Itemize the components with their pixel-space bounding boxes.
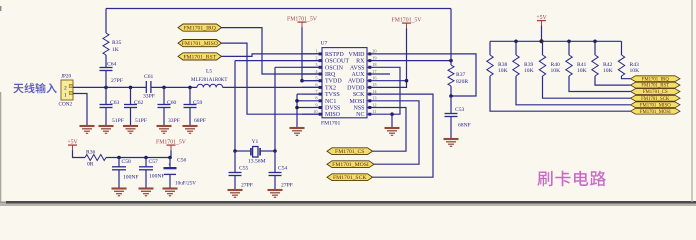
capacitor C64 xyxy=(100,67,113,69)
capacitor C61 xyxy=(145,81,147,93)
svg-text:CON2: CON2 xyxy=(59,102,73,108)
svg-text:68PF: 68PF xyxy=(194,118,206,124)
svg-text:20: 20 xyxy=(372,49,376,54)
svg-text:10uF/25V: 10uF/25V xyxy=(175,181,196,187)
wire 5V to AVDD/DVDD xyxy=(390,28,407,87)
svg-text:AVDD: AVDD xyxy=(348,79,365,85)
svg-text:33PF: 33PF xyxy=(168,118,180,124)
wire RX xyxy=(390,60,451,62)
svg-text:0R: 0R xyxy=(87,162,94,168)
capacitor C53 xyxy=(450,96,452,114)
svg-text:FM1701_CS: FM1701_CS xyxy=(335,149,364,155)
capacitor C63 xyxy=(105,87,107,104)
svg-text:18: 18 xyxy=(372,62,376,67)
svg-text:2: 2 xyxy=(64,86,67,92)
svg-text:FM1701_MISO: FM1701_MISO xyxy=(182,41,218,47)
resistor R43 xyxy=(618,55,624,76)
svg-text:1: 1 xyxy=(64,93,67,99)
svg-text:51PF: 51PF xyxy=(135,118,147,124)
svg-text:C58: C58 xyxy=(122,159,132,165)
IC U7 FM1701 xyxy=(322,48,367,118)
wire +5V bus xyxy=(490,40,622,42)
port FM1701_CS bottom xyxy=(327,148,373,155)
wire MOSI xyxy=(374,101,419,164)
svg-text:C60: C60 xyxy=(167,100,177,106)
svg-text:C53: C53 xyxy=(455,107,465,113)
svg-text:NC: NC xyxy=(356,112,364,118)
connector JP20 xyxy=(61,80,73,100)
wire antenna main net xyxy=(73,86,146,88)
svg-text:11: 11 xyxy=(372,109,376,114)
capacitor C60 xyxy=(163,87,165,104)
port FM1701_MOSI right xyxy=(631,108,681,114)
node C58 junction xyxy=(117,156,121,160)
svg-text:1K: 1K xyxy=(112,47,119,53)
port FM1701_RST right xyxy=(631,82,681,88)
window bottom border xyxy=(6,201,696,204)
svg-text:9: 9 xyxy=(315,102,317,107)
svg-text:C61: C61 xyxy=(144,74,154,80)
svg-text:MISO: MISO xyxy=(325,112,341,118)
wire 5V rail xyxy=(106,157,170,159)
resistor R37 xyxy=(448,65,454,86)
svg-text:FM1701_MOSI: FM1701_MOSI xyxy=(640,110,671,115)
svg-text:L5: L5 xyxy=(206,69,212,75)
resistor R38 xyxy=(487,55,493,76)
svg-text:VMID: VMID xyxy=(349,52,366,58)
port FM1701_IRQ left xyxy=(178,24,222,31)
svg-text:AVSS: AVSS xyxy=(350,65,365,71)
svg-text:RX: RX xyxy=(356,59,365,65)
ground under C56 xyxy=(163,189,178,196)
svg-text:FM1701_RST: FM1701_RST xyxy=(183,54,216,60)
svg-text:100NF: 100NF xyxy=(123,175,139,181)
port FM1701_RST left xyxy=(178,53,222,60)
capacitor C58 xyxy=(118,158,120,167)
svg-text:820R: 820R xyxy=(456,79,468,85)
svg-text:C62: C62 xyxy=(134,100,144,106)
node junction C60 xyxy=(162,86,166,90)
svg-text:C56: C56 xyxy=(177,158,187,164)
svg-text:2: 2 xyxy=(315,55,317,60)
capacitor C62 xyxy=(130,87,132,104)
ground under C63 xyxy=(99,126,114,133)
svg-text:C59: C59 xyxy=(193,100,203,106)
wire TVSS/NC1/DVSS bracket xyxy=(297,93,302,95)
resistor R42 xyxy=(592,55,598,76)
svg-text:OSCOUT: OSCOUT xyxy=(325,59,349,65)
svg-text:TVDD: TVDD xyxy=(325,79,342,85)
node bus R40 +5V xyxy=(540,39,544,43)
wire OSCIN to crystal xyxy=(275,66,322,68)
svg-text:DVSS: DVSS xyxy=(325,106,340,112)
wire C64 to antenna net xyxy=(105,71,107,88)
wire MISO to pin10 xyxy=(222,43,323,114)
node crystal left xyxy=(233,149,237,153)
ground under C60 xyxy=(157,126,172,133)
svg-text:OSCIN: OSCIN xyxy=(325,65,344,71)
svg-text:SCK: SCK xyxy=(353,92,365,98)
resistor R35 xyxy=(103,33,109,55)
svg-text:Y1: Y1 xyxy=(252,139,259,145)
port FM1701_MOSI bottom xyxy=(327,161,374,168)
svg-text:NSS: NSS xyxy=(353,106,364,112)
wire VMID loop xyxy=(390,54,476,96)
node bracket DVSS xyxy=(295,106,299,110)
port FM1701_SCK bottom xyxy=(327,174,373,181)
svg-text:FM1701_IRQ: FM1701_IRQ xyxy=(642,77,670,82)
ground under C54 xyxy=(268,190,283,197)
svg-text:3: 3 xyxy=(315,62,317,67)
resistor R40 xyxy=(539,55,545,76)
port FM1701_CS right xyxy=(631,89,681,95)
svg-text:C54: C54 xyxy=(278,166,288,172)
svg-text:FM1701: FM1701 xyxy=(321,121,340,127)
svg-text:100NF: 100NF xyxy=(149,174,165,180)
svg-text:10K: 10K xyxy=(551,68,561,74)
svg-text:MOSI: MOSI xyxy=(349,99,364,105)
wire 5V to R36 xyxy=(73,150,86,157)
node bus R39 xyxy=(514,40,518,44)
svg-text:FM1701_RST: FM1701_RST xyxy=(641,84,669,89)
svg-text:FM1701_MISO: FM1701_MISO xyxy=(640,103,671,108)
svg-text:13: 13 xyxy=(372,96,376,101)
wire R38 to port xyxy=(490,76,631,111)
svg-text:10K: 10K xyxy=(498,68,508,74)
svg-text:JP20: JP20 xyxy=(61,74,71,80)
wire IRQ to pin4 xyxy=(222,28,323,74)
svg-text:10K: 10K xyxy=(524,68,534,74)
svg-text:10K: 10K xyxy=(630,68,640,74)
label 天线输入 xyxy=(13,83,56,93)
node crystal right xyxy=(273,149,277,153)
ground under IC right xyxy=(385,128,400,135)
ground under C62 xyxy=(123,126,138,133)
svg-text:12: 12 xyxy=(372,102,376,107)
window right border xyxy=(691,0,692,202)
svg-text:1: 1 xyxy=(315,49,317,54)
svg-text:TX2: TX2 xyxy=(325,85,336,91)
port FM1701_SCK right xyxy=(631,95,681,101)
resistor R39 xyxy=(513,55,519,76)
wire top net down xyxy=(450,9,452,66)
node bus R42 xyxy=(593,40,597,44)
svg-text:FM1701_IRQ: FM1701_IRQ xyxy=(184,26,217,32)
svg-text:FM1701_MOSI: FM1701_MOSI xyxy=(332,162,369,168)
svg-text:27PF: 27PF xyxy=(111,78,123,84)
ground under C53 xyxy=(444,139,459,146)
wire NC to ground xyxy=(391,114,393,127)
wire NSS/CS xyxy=(373,108,407,152)
ground under C55 xyxy=(228,190,243,197)
svg-text:MLF201A1R0KT: MLF201A1R0KT xyxy=(191,78,227,83)
svg-text:R37: R37 xyxy=(456,72,466,78)
resistor R41 xyxy=(566,55,572,76)
svg-text:10K: 10K xyxy=(603,68,613,74)
wire R40 to port xyxy=(543,76,631,98)
node RX junction xyxy=(449,59,453,63)
node C57 junction xyxy=(144,156,148,160)
svg-text:FM1701_SCK: FM1701_SCK xyxy=(641,97,670,102)
svg-text:68NF: 68NF xyxy=(458,123,471,129)
wire OSCOUT to crystal xyxy=(235,60,322,62)
wire RX top net xyxy=(106,8,451,10)
svg-text:15: 15 xyxy=(372,82,376,87)
resistor R36 xyxy=(85,155,106,161)
svg-text:+: + xyxy=(168,163,171,168)
svg-text:FM1701_SCK: FM1701_SCK xyxy=(333,175,367,181)
svg-text:U7: U7 xyxy=(321,41,328,47)
port FM1701_MISO right xyxy=(631,102,681,108)
crystal Y1 xyxy=(235,150,250,152)
wire R39 to port xyxy=(516,76,631,105)
svg-text:27PF: 27PF xyxy=(241,183,253,189)
inductor L5 xyxy=(197,84,223,87)
svg-text:5: 5 xyxy=(315,76,317,81)
svg-text:C55: C55 xyxy=(239,166,249,172)
ground under C59 xyxy=(183,126,198,133)
wire RST to pin1 xyxy=(222,54,323,57)
node antenna junction C64 xyxy=(104,86,108,90)
wire FM1701_5V stem xyxy=(170,150,172,157)
node AVDD junction xyxy=(405,79,409,83)
ground under C58 xyxy=(112,189,127,196)
node junction C62 xyxy=(129,86,133,90)
ground under C57 xyxy=(139,189,154,196)
svg-text:10K: 10K xyxy=(577,68,587,74)
svg-text:27PF: 27PF xyxy=(281,183,293,189)
svg-text:AUX: AUX xyxy=(352,72,366,78)
ground under IC left xyxy=(290,128,305,135)
node junction C59 xyxy=(188,86,192,90)
svg-text:33PF: 33PF xyxy=(143,94,155,100)
port FM1701_IRQ right xyxy=(631,76,681,82)
node R37/C53/VMID junction xyxy=(449,94,453,98)
node C56 junction xyxy=(168,156,172,160)
capacitor C54 xyxy=(274,151,276,173)
port FM1701_MISO left xyxy=(178,40,222,47)
IC pin stubs xyxy=(302,53,322,55)
svg-text:FM1701_CS: FM1701_CS xyxy=(643,90,668,95)
node TVDD junction xyxy=(300,79,304,83)
node AVSS/NC junction xyxy=(390,112,394,116)
svg-text:C57: C57 xyxy=(149,159,159,165)
wire R41 to port xyxy=(569,76,631,92)
svg-text:C64: C64 xyxy=(107,62,117,68)
wire R43 to port xyxy=(622,76,631,79)
svg-text:TVSS: TVSS xyxy=(325,92,340,98)
wire R35 to C64 xyxy=(105,55,107,68)
wire JP20 pin1 to ground xyxy=(73,94,87,126)
svg-text:RSTPD: RSTPD xyxy=(325,52,344,58)
wire SCK xyxy=(373,94,434,177)
svg-text:13.56M: 13.56M xyxy=(248,159,266,165)
svg-text:DVDD: DVDD xyxy=(347,85,365,91)
svg-text:C63: C63 xyxy=(110,100,120,106)
svg-text:NC1: NC1 xyxy=(325,99,336,105)
window left border xyxy=(0,92,1,202)
wire +5V bank stem xyxy=(541,26,543,42)
svg-text:19: 19 xyxy=(372,55,376,60)
svg-text:R35: R35 xyxy=(112,40,122,46)
wire AVSS to ground xyxy=(390,67,400,114)
svg-text:8: 8 xyxy=(315,96,317,101)
svg-text:IRQ: IRQ xyxy=(325,72,336,78)
node bus R41 xyxy=(567,40,571,44)
wire 5V to TVDD pin5 xyxy=(302,27,322,81)
svg-text:51PF: 51PF xyxy=(112,118,124,124)
svg-text:10: 10 xyxy=(313,109,317,114)
wire R42 to port xyxy=(595,76,631,85)
title 刷卡电路 xyxy=(537,171,606,187)
capacitor C56 electrolytic xyxy=(169,158,171,168)
capacitor C57 xyxy=(145,158,147,167)
ground under JP20 xyxy=(80,126,95,133)
svg-text:R36: R36 xyxy=(86,150,96,156)
capacitor C59 xyxy=(189,87,191,104)
node bracket NC1 xyxy=(295,99,299,103)
capacitor C55 xyxy=(234,151,236,173)
